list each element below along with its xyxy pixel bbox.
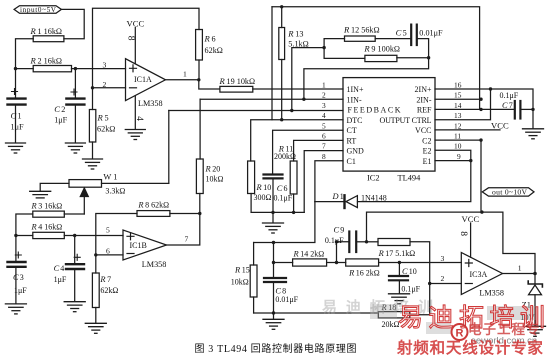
- node junction dot R7/R8/pin6: [94, 253, 97, 256]
- svg-text:5: 5: [106, 226, 110, 235]
- capacitor C3: [8, 236, 28, 304]
- ground for R5: [83, 159, 103, 169]
- node junction dot R5/feedback: [91, 86, 94, 89]
- node junction dot R17/R18 pin2: [428, 282, 431, 285]
- svg-text:16: 16: [454, 81, 462, 90]
- svg-text:8 62kΩ: 8 62kΩ: [145, 201, 169, 210]
- svg-text:16 2kΩ: 16 2kΩ: [356, 269, 380, 278]
- wire pin16 down to pin13 OUTPUT CTRL: [435, 89, 491, 120]
- wire rail2 left vertical down to DTC line: [271, 7, 273, 120]
- wire feedback rail IC1A pin2 up and over to R6 top: [93, 8, 200, 88]
- node junction dot C2 top: [74, 67, 77, 70]
- svg-text:2IN+: 2IN+: [415, 85, 432, 94]
- label pin numbers 9-16 right: [454, 81, 462, 161]
- svg-text:R: R: [348, 269, 354, 278]
- resistor R13: [279, 7, 309, 120]
- wire RT pin6 to R11 top: [294, 140, 343, 161]
- svg-text:1μF: 1μF: [54, 116, 67, 125]
- svg-text:IC1A: IC1A: [134, 75, 152, 84]
- wire IC1B output to R8/R20 node: [167, 214, 200, 246]
- svg-text:C: C: [402, 267, 408, 276]
- wire R19 to TL494 pin1: [253, 88, 343, 90]
- wire C1 pin8 down to D1: [315, 161, 343, 202]
- svg-text:1 16kΩ: 1 16kΩ: [38, 27, 63, 36]
- svg-text:0.1μF: 0.1μF: [274, 193, 293, 202]
- svg-text:3: 3: [322, 101, 326, 110]
- svg-text:3: 3: [20, 273, 24, 282]
- svg-text:3: 3: [441, 254, 445, 263]
- svg-text:2IN-: 2IN-: [416, 95, 431, 104]
- capacitor C9: [325, 226, 367, 263]
- capacitor C1: [8, 69, 26, 143]
- svg-text:10: 10: [409, 267, 417, 276]
- wire GND pin7 down: [304, 151, 343, 213]
- svg-text:GND: GND: [347, 147, 365, 156]
- node junction dot pin15 rail: [479, 98, 482, 101]
- VCC for IC3A with pin 8: [458, 214, 479, 257]
- svg-text:1: 1: [340, 192, 344, 201]
- wire E1 down and left to D1 anode: [358, 161, 471, 202]
- svg-text:R: R: [31, 202, 37, 211]
- resistor R16: [346, 259, 380, 278]
- svg-text:2 16kΩ: 2 16kΩ: [38, 57, 63, 66]
- wire C5 right down to R9 right junction: [417, 39, 429, 58]
- node junction dot R1/R2/C1: [14, 67, 17, 70]
- wire rail2 top REF rail: [272, 7, 480, 110]
- svg-text:D: D: [332, 192, 339, 201]
- node junction dot at FEEDBACK stub: [290, 109, 293, 112]
- resistor R7: [92, 255, 118, 323]
- wire node A horizontal R2 line to IC1A pin3: [16, 68, 34, 70]
- svg-text:12 56kΩ: 12 56kΩ: [351, 26, 380, 35]
- svg-text:0.01μF: 0.01μF: [419, 28, 443, 37]
- svg-text:62kΩ: 62kΩ: [100, 286, 118, 295]
- svg-text:C2: C2: [422, 136, 431, 145]
- node junction dot IC3A output: [533, 272, 537, 276]
- node junction dot out rail: [480, 210, 483, 213]
- node junction dot DTC R13: [280, 118, 283, 121]
- svg-text:RT: RT: [347, 136, 357, 145]
- svg-text:3.3kΩ: 3.3kΩ: [105, 187, 125, 196]
- node junction dot C4 top: [73, 234, 76, 237]
- resistor R18: [378, 284, 429, 330]
- wire IC3A output: [503, 273, 536, 275]
- svg-text:C: C: [334, 226, 340, 235]
- svg-text:LM358: LM358: [479, 289, 504, 298]
- wire IC1B pin6 line: [96, 254, 123, 256]
- svg-text:10kΩ: 10kΩ: [231, 278, 249, 287]
- resistor R2: [30, 56, 72, 72]
- svg-text:REF: REF: [417, 106, 432, 115]
- svg-text:W 1: W 1: [103, 173, 117, 182]
- wire R9 right lead: [397, 57, 429, 59]
- node junction dot pin16: [489, 87, 492, 90]
- svg-text:17 5.1kΩ: 17 5.1kΩ: [385, 249, 415, 258]
- svg-text:6: 6: [322, 132, 326, 141]
- resistor R20: [196, 159, 223, 214]
- svg-text:input0~5V: input0~5V: [20, 6, 57, 14]
- wire DTC pin4 line to R10 top: [251, 120, 343, 161]
- wire from R9 junction down and left to 1IN- stub: [304, 58, 429, 99]
- node junction dot C6 rail: [271, 211, 274, 214]
- node junction dot C8 bottom: [272, 311, 275, 314]
- resistor R6: [196, 30, 223, 80]
- wire FEEDBACK line from W1 corner to TL494 pin3: [169, 110, 343, 112]
- resistor R4: [16, 223, 123, 239]
- svg-text:5: 5: [403, 28, 407, 37]
- wire input hexagon to R1 right: [61, 9, 84, 38]
- svg-text:R: R: [99, 275, 105, 284]
- svg-text:C: C: [502, 101, 508, 110]
- wire pin9 E1: [435, 160, 471, 162]
- node junction dot C10 top: [398, 261, 401, 264]
- resistor R19: [219, 76, 256, 92]
- svg-text:11: 11: [454, 132, 461, 141]
- svg-text:C: C: [396, 27, 402, 37]
- node output label out 0~10V: [482, 188, 534, 197]
- svg-text:2: 2: [322, 91, 326, 100]
- wire pin14 REF to C7: [435, 108, 514, 110]
- svg-text:VCC: VCC: [462, 214, 480, 224]
- node junction dot pin11: [479, 138, 482, 141]
- capacitor C2: [54, 69, 84, 143]
- wire R12 R9 left junction to FEEDBACK: [292, 48, 324, 111]
- wire pin10 E2 down: [435, 150, 471, 160]
- svg-text:7: 7: [107, 275, 111, 284]
- svg-text:C: C: [11, 111, 17, 121]
- zener diode Z1 10V: [520, 274, 542, 327]
- node junction dot C8 stub top: [272, 241, 275, 244]
- svg-text:DTC: DTC: [347, 116, 363, 125]
- wire R14 left lead: [274, 262, 293, 264]
- ground for IC1A pin 4: [125, 96, 145, 140]
- svg-text:1μF: 1μF: [14, 286, 27, 295]
- resistor R15: [231, 243, 257, 314]
- svg-text:TL494: TL494: [398, 174, 422, 183]
- ground for C10: [389, 294, 410, 304]
- svg-text:12: 12: [454, 121, 462, 130]
- svg-text:图 3 TL494 回路控制器电路原理图: 图 3 TL494 回路控制器电路原理图: [195, 342, 357, 355]
- svg-text:7: 7: [322, 142, 326, 151]
- svg-text:IC3A: IC3A: [470, 270, 488, 279]
- node junction dot C9 right R17 left: [365, 240, 368, 243]
- resistor R10: [248, 161, 272, 212]
- svg-text:20: 20: [212, 165, 220, 174]
- node junction dot pin14 rail: [479, 108, 482, 111]
- node junction dot IC1A output: [197, 78, 200, 81]
- svg-text:IC1B: IC1B: [130, 241, 147, 250]
- potentiometer W1: [40, 173, 169, 215]
- op-amp IC1B LM358: [123, 230, 167, 269]
- capacitor C8: [264, 278, 299, 313]
- resistor R8: [96, 201, 200, 255]
- svg-text:R: R: [97, 113, 104, 123]
- svg-text:62kΩ: 62kΩ: [205, 46, 223, 55]
- capacitor C7: [500, 91, 534, 119]
- svg-text:62kΩ: 62kΩ: [97, 125, 115, 134]
- resistor R5: [89, 88, 115, 159]
- svg-text:5: 5: [322, 121, 326, 130]
- wire pin15 2IN-: [435, 98, 481, 100]
- wire 1IN- line from R20 top corner to TL494 pin2: [200, 98, 343, 100]
- svg-text:R: R: [205, 165, 211, 174]
- ground for R7: [85, 323, 106, 333]
- svg-text:13: 13: [295, 30, 303, 39]
- svg-text:R: R: [293, 250, 299, 259]
- svg-text:R: R: [343, 25, 350, 35]
- wire R16 to IC3A pin3: [379, 262, 462, 264]
- svg-text:C: C: [277, 184, 283, 193]
- svg-text:R: R: [287, 29, 294, 39]
- diode D1 1N4148: [315, 192, 387, 208]
- VCC for IC1A with pin 8: [126, 19, 145, 64]
- svg-text:1IN-: 1IN-: [347, 95, 362, 104]
- op-amp IC1A LM358: [126, 59, 166, 108]
- svg-text:4: 4: [322, 111, 326, 120]
- svg-text:1: 1: [518, 264, 522, 273]
- svg-text:R: R: [30, 56, 37, 66]
- node junction dot R14 left: [272, 261, 275, 264]
- wire out rail to IC3A output: [482, 212, 535, 272]
- capacitor C6: [264, 175, 293, 213]
- svg-text:15: 15: [454, 91, 462, 100]
- VCC at TL494 pin12: [435, 121, 509, 131]
- svg-text:0.1μF: 0.1μF: [401, 285, 420, 294]
- svg-text:10: 10: [263, 183, 271, 192]
- svg-text:2: 2: [103, 80, 107, 89]
- wire C8 stub vertical: [273, 243, 275, 278]
- svg-text:1: 1: [183, 70, 187, 79]
- svg-text:2: 2: [441, 274, 445, 283]
- wire bottom ground rail to R18: [254, 312, 379, 314]
- watermark logo circle R: [452, 324, 468, 340]
- wire CT pin5 to C6: [273, 130, 343, 173]
- op-amp IC3A LM358: [461, 253, 504, 298]
- svg-text:R: R: [378, 249, 384, 258]
- node input label input0~5V: [14, 6, 61, 14]
- wire C1 network down to R15/C8: [254, 202, 315, 243]
- svg-text:R: R: [137, 201, 143, 210]
- wire R9 left lead: [324, 48, 365, 59]
- svg-text:6: 6: [212, 35, 216, 44]
- svg-text:7: 7: [185, 235, 189, 244]
- svg-text:R: R: [363, 44, 370, 54]
- svg-text:5: 5: [105, 114, 109, 123]
- svg-text:VCC: VCC: [491, 121, 509, 131]
- node junction dot E1/E2: [469, 159, 472, 162]
- svg-text:R: R: [219, 76, 226, 86]
- svg-text:FEEDBACK: FEEDBACK: [348, 106, 401, 115]
- wire out net stub up from C9/R17 node: [367, 212, 482, 242]
- node junction dot R12/R9 left: [322, 46, 325, 49]
- wire IC1A pin2 line: [93, 87, 126, 89]
- svg-text:0.01μF: 0.01μF: [275, 295, 298, 304]
- svg-text:14: 14: [454, 101, 462, 110]
- svg-text:C: C: [54, 104, 60, 114]
- ground for W1: [30, 191, 51, 198]
- svg-text:LM358: LM358: [142, 260, 167, 269]
- ground for bottom rail: [263, 313, 284, 329]
- node junction dot C7 right: [531, 108, 534, 111]
- watermark gray blocks: [322, 298, 536, 334]
- svg-text:射频和天线设计专家: 射频和天线设计专家: [396, 338, 544, 357]
- wire IC1A output down to R19 line: [199, 80, 220, 89]
- svg-text:out 0~10V: out 0~10V: [492, 188, 528, 197]
- ground for C2: [65, 143, 85, 153]
- resistor R12: [343, 25, 380, 42]
- svg-text:C: C: [54, 264, 60, 273]
- wire R14 to R16: [327, 262, 346, 264]
- svg-text:10: 10: [454, 142, 462, 151]
- svg-text:0.1μF: 0.1μF: [500, 91, 519, 100]
- wire pin11 C2 down to out rail: [435, 140, 481, 212]
- svg-text:E1: E1: [423, 157, 432, 166]
- svg-text:1: 1: [322, 81, 326, 90]
- wire IC3A pin2 line: [430, 283, 462, 285]
- resistor R1: [30, 26, 64, 42]
- svg-text:19 10kΩ: 19 10kΩ: [227, 77, 256, 86]
- svg-text:6: 6: [284, 184, 288, 193]
- IC U2 TL494 box: [343, 78, 435, 183]
- svg-text:R: R: [204, 34, 211, 44]
- svg-text:1N4148: 1N4148: [361, 194, 387, 203]
- svg-text:LM358: LM358: [138, 99, 163, 108]
- ground for C4: [64, 302, 85, 312]
- svg-text:8: 8: [458, 231, 469, 236]
- svg-text:OUTPUT CTRL: OUTPUT CTRL: [380, 116, 432, 125]
- svg-text:10kΩ: 10kΩ: [206, 175, 224, 184]
- node junction dot R8/R20/IC1B out: [198, 212, 201, 215]
- wire IC1A output pin1: [166, 79, 199, 81]
- svg-text:4: 4: [60, 264, 64, 273]
- svg-text:1: 1: [18, 112, 22, 121]
- wire R20 top lead: [199, 99, 201, 159]
- node junction dot R3/R4/C3: [14, 234, 17, 237]
- svg-text:6: 6: [106, 247, 110, 256]
- node junction dot 1IN- stub: [302, 98, 305, 101]
- capacitor C10: [389, 263, 421, 294]
- svg-text:200kΩ: 200kΩ: [274, 152, 296, 161]
- svg-text:VCC: VCC: [415, 126, 431, 135]
- svg-text:13: 13: [454, 111, 462, 120]
- label pin numbers 1-8 left: [322, 81, 326, 161]
- wire pin16 2IN+ to right: [435, 89, 533, 109]
- svg-text:CT: CT: [347, 126, 357, 135]
- resistor R17: [367, 239, 416, 259]
- svg-text:C: C: [13, 273, 19, 282]
- svg-text:C1: C1: [347, 157, 356, 166]
- svg-text:1μF: 1μF: [11, 123, 24, 132]
- svg-text:R: R: [30, 26, 37, 36]
- ground for Z1: [525, 326, 546, 336]
- svg-text:14 2kΩ: 14 2kΩ: [300, 250, 324, 259]
- node junction dot C5/R9 right: [427, 56, 430, 59]
- svg-text:R: R: [31, 223, 37, 232]
- wire R17 right to IC3A pin2: [410, 242, 430, 284]
- resistor R11: [274, 145, 297, 213]
- svg-text:R: R: [456, 328, 464, 340]
- svg-text:7: 7: [509, 101, 513, 110]
- svg-text:4 16kΩ: 4 16kΩ: [38, 223, 62, 232]
- svg-text:4: 4: [134, 116, 145, 121]
- svg-text:8: 8: [126, 36, 137, 41]
- ground for mid rail: [263, 212, 284, 233]
- svg-text:R: R: [234, 266, 240, 275]
- ground for C7: [523, 109, 544, 138]
- svg-text:9: 9: [340, 226, 344, 235]
- svg-text:R: R: [256, 183, 262, 192]
- svg-text:E2: E2: [423, 147, 432, 156]
- svg-text:3 16kΩ: 3 16kΩ: [38, 202, 62, 211]
- svg-text:9 100kΩ: 9 100kΩ: [371, 45, 400, 54]
- svg-text:9: 9: [457, 152, 461, 161]
- wire W1 right lead vertical: [168, 111, 170, 184]
- svg-text:3: 3: [103, 61, 107, 70]
- node junction dot rail2 R13: [280, 5, 283, 8]
- node junction dot R14/R16: [335, 261, 338, 264]
- svg-text:300Ω: 300Ω: [254, 193, 272, 202]
- ground for C3: [5, 304, 26, 314]
- wire R12 left lead: [324, 39, 344, 48]
- svg-text:2: 2: [61, 105, 65, 114]
- resistor R14: [293, 250, 327, 267]
- wire mid ground rail: [251, 211, 304, 213]
- svg-text:0.1μF: 0.1μF: [325, 236, 344, 245]
- svg-text:IC2: IC2: [367, 174, 380, 183]
- resistor R9: [363, 44, 400, 62]
- svg-text:15: 15: [242, 266, 250, 275]
- resistor R3: [16, 202, 84, 236]
- svg-text:20kΩ: 20kΩ: [382, 320, 400, 329]
- node junction dot R11 rail: [292, 211, 295, 214]
- svg-text:8: 8: [322, 152, 326, 161]
- capacitor C5: [375, 25, 443, 45]
- wire R1 left down to R2 node: [16, 39, 34, 69]
- svg-text:1IN+: 1IN+: [347, 85, 364, 94]
- svg-text:1μF: 1μF: [54, 275, 67, 284]
- capacitor C4: [54, 236, 84, 302]
- ground for C1: [6, 143, 26, 153]
